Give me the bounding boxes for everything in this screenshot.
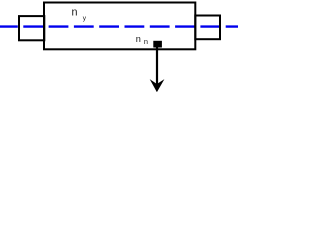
node marker (filled square) <box>153 41 162 48</box>
svg-text:y: y <box>83 15 87 22</box>
arrow stem <box>156 46 158 85</box>
left fiber stub box <box>19 16 44 40</box>
label n_y <box>72 7 87 23</box>
wire: dashed blue optical axis <box>0 25 240 27</box>
svg-text:n: n <box>144 37 148 46</box>
svg-text:n: n <box>72 7 78 19</box>
arrowhead (down) <box>150 79 165 92</box>
label n_n <box>136 34 148 46</box>
main box (modulator body) <box>44 3 195 50</box>
right fiber stub box <box>195 16 220 40</box>
svg-text:n: n <box>136 34 141 44</box>
